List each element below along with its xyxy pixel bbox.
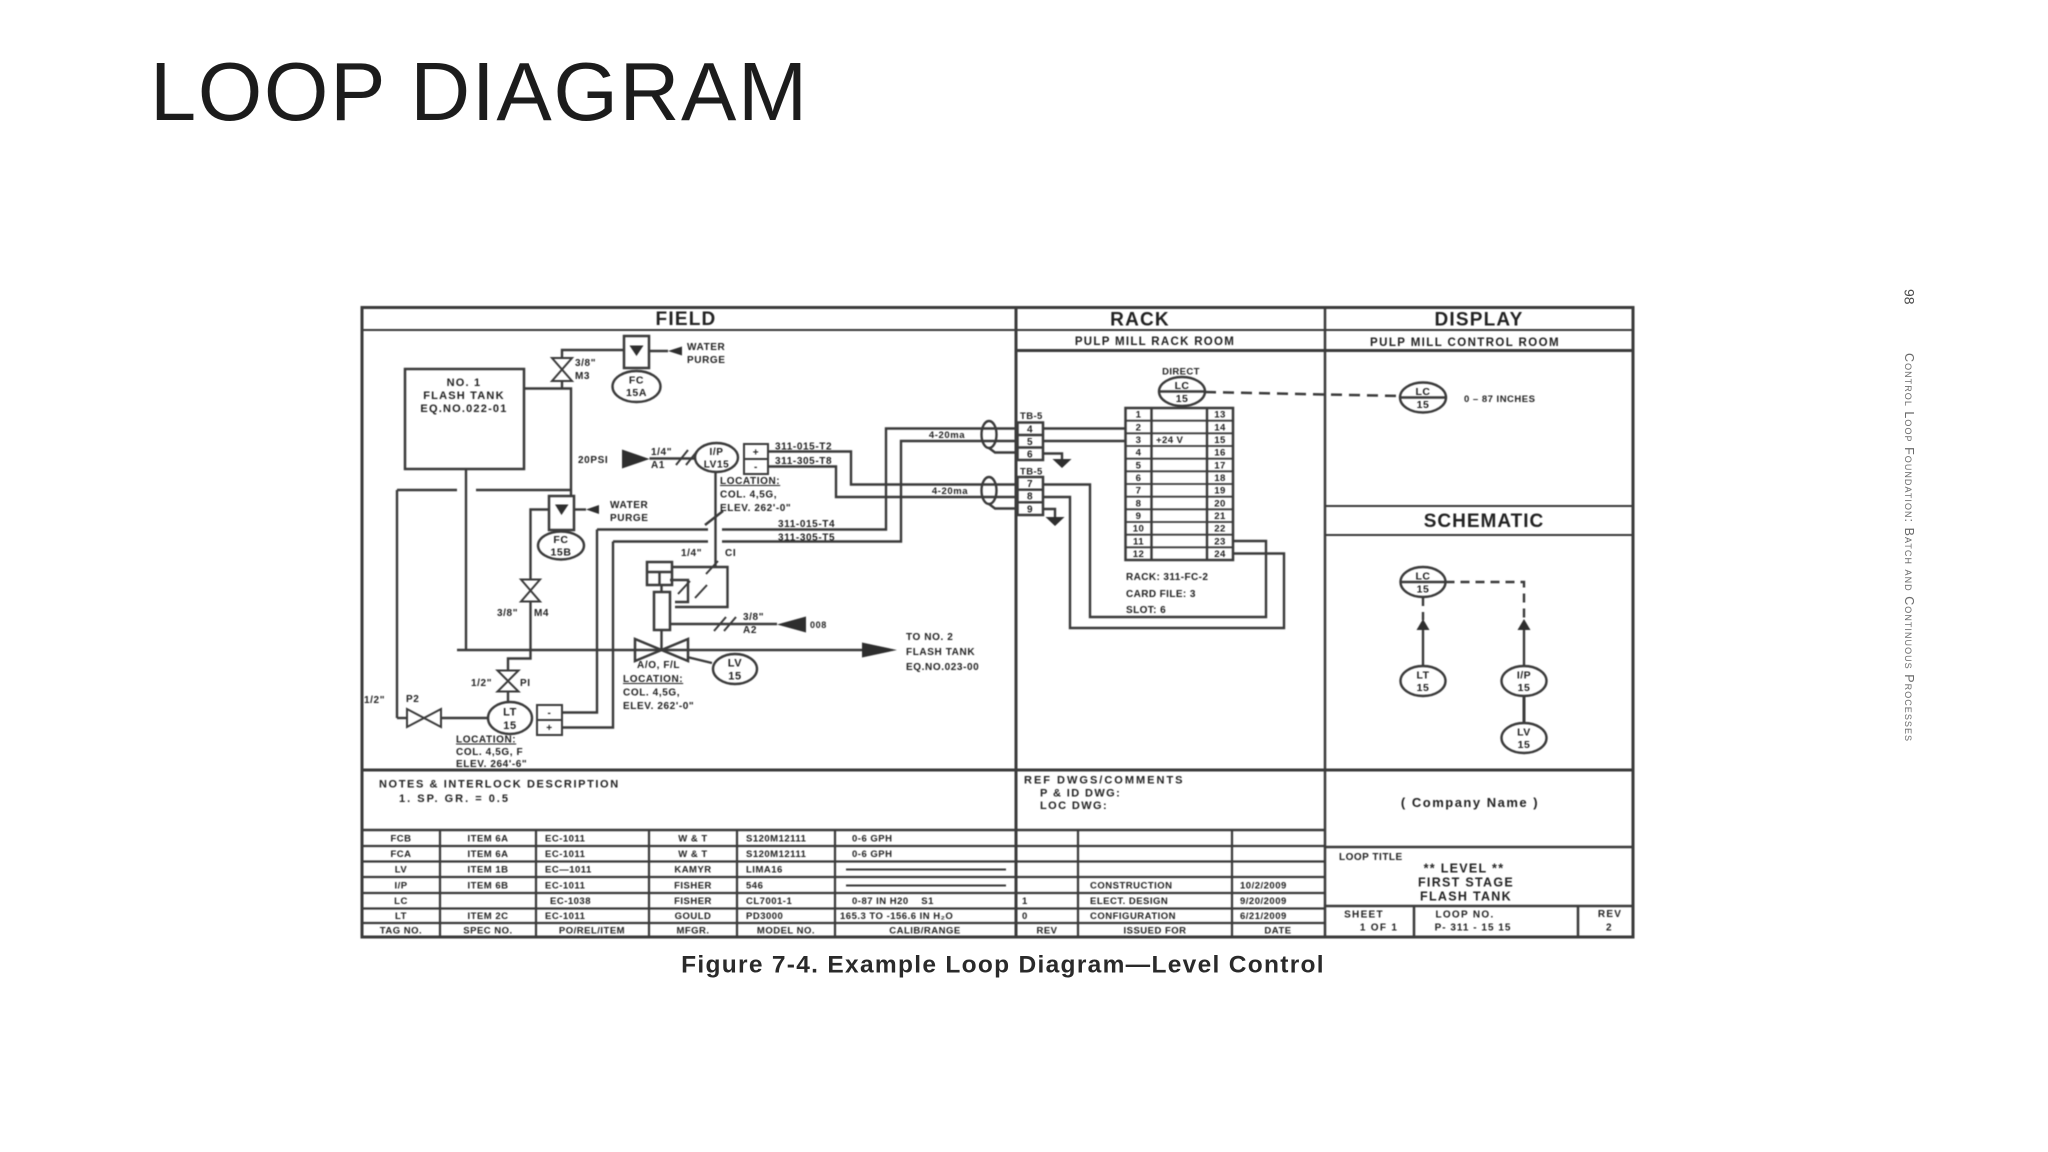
wire TB5 to card terminal 3 — [1043, 440, 1126, 442]
water purge line 15A — [649, 350, 668, 352]
svg-text:1/4": 1/4" — [651, 447, 672, 458]
svg-text:EC-1011: EC-1011 — [545, 911, 586, 922]
ground stub TB6 — [1043, 454, 1062, 460]
svg-text:3: 3 — [1136, 435, 1142, 446]
svg-text:PURGE: PURGE — [610, 513, 649, 524]
sheet row top line — [1325, 905, 1633, 908]
svg-text:4: 4 — [1136, 448, 1142, 459]
svg-text:CONFIGURATION: CONFIGURATION — [1090, 911, 1176, 922]
svg-text:13: 13 — [1214, 410, 1225, 421]
svg-text:12: 12 — [1133, 549, 1144, 560]
positioner box divider h — [647, 571, 672, 573]
svg-text:1: 1 — [1022, 896, 1028, 907]
svg-text:COL. 4,5G,: COL. 4,5G, — [623, 688, 680, 699]
svg-text:3/8": 3/8" — [497, 608, 518, 619]
svg-text:+: + — [753, 448, 759, 459]
svg-text:15: 15 — [1417, 399, 1430, 411]
svg-text:LT: LT — [1416, 670, 1429, 682]
LT junction box minus — [537, 705, 562, 720]
pipe below M4 to main pipe — [529, 602, 531, 651]
wire LT minus run to TB4 — [597, 528, 708, 530]
bubble I/P LV15 — [695, 443, 738, 472]
svg-text:FLASH TANK: FLASH TANK — [423, 390, 504, 402]
svg-text:I/P: I/P — [394, 881, 407, 892]
wire I/P minus to TB8 — [768, 467, 1017, 498]
tank bottom drain line — [465, 469, 467, 650]
svg-text:5: 5 — [1027, 437, 1033, 448]
bubble LT 15 — [488, 702, 532, 734]
svg-text:3/8": 3/8" — [575, 358, 596, 369]
link I/P to LV — [1523, 696, 1526, 723]
svg-text:PULP MILL RACK ROOM: PULP MILL RACK ROOM — [1075, 336, 1235, 348]
svg-text:ELEV. 264'-6": ELEV. 264'-6" — [456, 759, 527, 770]
sheet/loopno divider — [1413, 906, 1416, 937]
ground arrow TB9 — [1046, 517, 1065, 526]
vent arrow A2 — [777, 617, 806, 633]
svg-text:4: 4 — [1027, 425, 1033, 436]
svg-text:2: 2 — [1606, 923, 1612, 934]
left standpipe vertical — [396, 490, 398, 718]
schematic LC bubble — [1401, 567, 1446, 597]
svg-text:10: 10 — [1133, 524, 1144, 535]
line P2 to LT — [441, 717, 488, 719]
svg-text:SCHEMATIC: SCHEMATIC — [1424, 511, 1545, 532]
svg-text:TAG NO.: TAG NO. — [380, 926, 422, 937]
pneumatic slashes A2 — [714, 617, 736, 631]
svg-text:DIRECT: DIRECT — [1162, 367, 1200, 378]
shield drain pair1 — [989, 448, 1017, 453]
actuator stem lower — [660, 630, 662, 650]
svg-text:FC: FC — [629, 375, 644, 387]
pneumatic slashes positioner — [678, 561, 718, 598]
svg-text:0-6 GPH: 0-6 GPH — [852, 834, 892, 845]
svg-text:EC-1011: EC-1011 — [545, 849, 586, 860]
svg-text:-: - — [548, 708, 552, 719]
svg-text:CARD FILE: 3: CARD FILE: 3 — [1126, 589, 1196, 600]
valve P2 — [407, 709, 441, 727]
valve M4 — [521, 580, 540, 602]
positioner box divider v — [658, 572, 660, 585]
svg-text:CONSTRUCTION: CONSTRUCTION — [1090, 881, 1173, 892]
rack/display column divider — [1324, 308, 1327, 938]
svg-text:Control Loop Foundation: Batch: Control Loop Foundation: Batch and Conti… — [1902, 353, 1916, 742]
svg-text:NOTES & INTERLOCK DESCRIPTION: NOTES & INTERLOCK DESCRIPTION — [379, 779, 620, 791]
svg-text:22: 22 — [1214, 524, 1225, 535]
svg-text:LV15: LV15 — [704, 460, 730, 471]
svg-text:LOOP NO.: LOOP NO. — [1435, 910, 1494, 921]
I/P junction box minus — [744, 459, 768, 474]
svg-text:LV: LV — [728, 658, 743, 670]
svg-text:3/8": 3/8" — [743, 612, 764, 623]
svg-text:6: 6 — [1027, 450, 1033, 461]
svg-text:9: 9 — [1136, 511, 1142, 522]
I/P junction box plus — [744, 444, 768, 459]
valve M3 stub — [561, 381, 563, 389]
svg-text:LOCATION:: LOCATION: — [720, 476, 780, 487]
svg-text:15: 15 — [1176, 393, 1188, 405]
seal pot FC15B — [549, 496, 574, 530]
svg-text:LOCATION:: LOCATION: — [456, 735, 516, 746]
svg-text:ITEM 6A: ITEM 6A — [468, 849, 509, 860]
svg-text:FLASH TANK: FLASH TANK — [1420, 890, 1512, 904]
pneumatic slashes A1 — [676, 450, 698, 465]
page number 98 (rotated) — [1902, 289, 1918, 305]
display LC centerline — [1400, 396, 1446, 398]
actuator stem upper — [660, 585, 662, 592]
svg-text:** LEVEL **: ** LEVEL ** — [1424, 862, 1505, 876]
svg-text:21: 21 — [1214, 511, 1226, 522]
svg-text:REF DWGS/COMMENTS: REF DWGS/COMMENTS — [1024, 775, 1185, 787]
svg-text:0-6 GPH: 0-6 GPH — [852, 849, 892, 860]
svg-text:311-305-T5: 311-305-T5 — [778, 533, 835, 544]
svg-text:P & ID DWG:: P & ID DWG: — [1040, 788, 1121, 800]
svg-text:0 – 87 INCHES: 0 – 87 INCHES — [1464, 394, 1535, 405]
svg-text:Figure 7-4. Example Loop Diagr: Figure 7-4. Example Loop Diagram—Level C… — [681, 952, 1325, 979]
dashed LC to I/P branch — [1446, 582, 1525, 620]
svg-text:8: 8 — [1136, 498, 1142, 509]
field/rack column divider — [1015, 308, 1018, 938]
LT junction box plus — [537, 720, 562, 735]
svg-text:546: 546 — [746, 881, 763, 892]
svg-text:98: 98 — [1902, 289, 1918, 305]
svg-text:20PSI: 20PSI — [578, 455, 608, 466]
svg-text:S120M12111: S120M12111 — [746, 834, 807, 845]
svg-text:8: 8 — [1027, 492, 1033, 503]
svg-text:REV: REV — [1036, 926, 1057, 937]
seal pot FC15A — [624, 336, 649, 368]
svg-text:ELEV. 262'-0": ELEV. 262'-0" — [623, 701, 694, 712]
pipe outlet arrow — [862, 643, 897, 658]
seal pot 15B triangle — [555, 505, 569, 516]
svg-text:ITEM 6A: ITEM 6A — [468, 834, 509, 845]
schematic LV bubble — [1502, 723, 1547, 753]
svg-text:I/P: I/P — [709, 447, 723, 458]
svg-text:15: 15 — [1518, 682, 1531, 694]
schematic LC centerline — [1401, 581, 1446, 583]
ground stub TB9 — [1043, 509, 1055, 517]
header band bottom line — [362, 329, 1633, 331]
svg-text:A1: A1 — [651, 460, 665, 471]
svg-text:15: 15 — [1214, 435, 1226, 446]
svg-text:EQ.NO.022-01: EQ.NO.022-01 — [420, 403, 507, 415]
svg-text:CL7001-1: CL7001-1 — [746, 896, 792, 907]
svg-text:TB-5: TB-5 — [1020, 467, 1043, 478]
svg-text:LC: LC — [394, 896, 408, 907]
display/schematic divider — [1325, 505, 1633, 507]
svg-text:COL. 4,5G, F: COL. 4,5G, F — [456, 747, 523, 758]
svg-text:FISHER: FISHER — [674, 896, 712, 907]
svg-text:W & T: W & T — [678, 849, 707, 860]
svg-text:FIRST STAGE: FIRST STAGE — [1418, 876, 1514, 890]
water purge line 15B — [574, 508, 586, 510]
svg-text:311-015-T2: 311-015-T2 — [775, 442, 832, 453]
svg-text:( Company Name ): ( Company Name ) — [1401, 795, 1539, 810]
svg-text:P- 311 - 15 15: P- 311 - 15 15 — [1435, 923, 1512, 934]
tube to positioner top box — [672, 566, 716, 568]
valve M3 — [552, 358, 572, 381]
TB-5 block lower — [1018, 477, 1044, 515]
svg-text:A/O, F/L: A/O, F/L — [637, 660, 680, 671]
svg-text:PURGE: PURGE — [687, 355, 726, 366]
rack/display sub-band bottom line — [1016, 349, 1633, 352]
svg-text:RACK: RACK — [1110, 310, 1170, 331]
wire LT minus riser — [562, 530, 597, 713]
svg-text:ITEM 1B: ITEM 1B — [468, 865, 509, 876]
svg-text:1/2": 1/2" — [471, 678, 492, 689]
LV tag leader line — [687, 657, 712, 663]
svg-text:15: 15 — [728, 671, 741, 683]
svg-text:COL. 4,5G,: COL. 4,5G, — [720, 490, 777, 501]
ground arrow TB6 — [1053, 459, 1072, 468]
svg-text:23: 23 — [1214, 536, 1225, 547]
svg-text:LT: LT — [503, 707, 517, 719]
svg-text:EC-1011: EC-1011 — [545, 881, 586, 892]
svg-text:LIMA16: LIMA16 — [746, 865, 783, 876]
svg-text:FIELD: FIELD — [656, 309, 717, 330]
slide title — [150, 45, 809, 138]
svg-text:MODEL NO.: MODEL NO. — [757, 926, 815, 937]
main process pipe — [457, 649, 862, 651]
svg-text:18: 18 — [1214, 473, 1226, 484]
book title sidebar (rotated) — [1902, 353, 1916, 742]
svg-text:19: 19 — [1214, 486, 1225, 497]
wire TB7 to card terminal 23 — [1043, 485, 1266, 618]
svg-text:1/4": 1/4" — [681, 548, 702, 559]
svg-text:4-20ma: 4-20ma — [932, 486, 968, 497]
table row lines — [362, 846, 1325, 923]
arrowhead on I/P branch — [1518, 619, 1531, 630]
svg-text:9: 9 — [1027, 504, 1033, 515]
svg-text:PULP MILL CONTROL ROOM: PULP MILL CONTROL ROOM — [1370, 337, 1560, 349]
svg-text:4-20ma: 4-20ma — [929, 430, 965, 441]
svg-text:1. SP. GR. = 0.5: 1. SP. GR. = 0.5 — [399, 793, 510, 805]
svg-text:15: 15 — [1417, 682, 1430, 694]
svg-text:EC—1011: EC—1011 — [545, 865, 592, 876]
cable shield oval pair2 — [982, 477, 997, 504]
svg-text:15A: 15A — [626, 387, 647, 399]
svg-text:15: 15 — [1417, 584, 1430, 596]
svg-text:DATE: DATE — [1264, 926, 1291, 937]
svg-text:ELEV. 262'-0": ELEV. 262'-0" — [720, 503, 791, 514]
wire TB8 to card terminal 24 — [1043, 497, 1284, 628]
schematic LT bubble — [1401, 666, 1446, 696]
card row lines — [1126, 421, 1234, 548]
svg-text:NO. 1: NO. 1 — [447, 377, 482, 389]
rack LC bubble centerline — [1159, 390, 1205, 392]
svg-text:0: 0 — [1022, 911, 1028, 922]
wire LT minus run after hop — [722, 429, 1017, 530]
svg-text:+: + — [546, 723, 552, 734]
FIELD header — [656, 309, 1560, 532]
wire TB4 to card terminal 2 — [1043, 427, 1126, 429]
link to schematic LT — [1422, 630, 1424, 666]
svg-text:5: 5 — [1136, 460, 1142, 471]
svg-text:W & T: W & T — [678, 834, 707, 845]
svg-text:008: 008 — [810, 620, 827, 630]
svg-text:ELECT. DESIGN: ELECT. DESIGN — [1090, 896, 1168, 907]
LV row dash run — [846, 869, 1006, 871]
loop title box top line — [1325, 846, 1633, 849]
wire LT plus run to TB5 — [613, 540, 708, 542]
svg-text:24: 24 — [1214, 549, 1226, 560]
TB-5 block upper — [1018, 423, 1044, 461]
dashed link rack LC to display LC — [1205, 392, 1400, 396]
air supply line to I/P — [650, 457, 696, 459]
svg-text:DISPLAY: DISPLAY — [1434, 310, 1523, 331]
svg-text:15: 15 — [503, 720, 516, 732]
svg-text:SLOT: 6: SLOT: 6 — [1126, 605, 1166, 616]
svg-text:311-305-T8: 311-305-T8 — [775, 456, 832, 467]
horizontal header at 490 (right of drain) — [476, 489, 571, 491]
pipe above M3 to seal pot 15A — [562, 350, 624, 358]
instrument table top line — [362, 829, 1325, 832]
svg-text:-: - — [754, 462, 758, 473]
svg-text:FC: FC — [553, 534, 568, 546]
svg-text:EQ.NO.023-00: EQ.NO.023-00 — [906, 662, 979, 673]
shield drain pair2 — [989, 504, 1017, 509]
pipe pot15B left to valve M4 — [531, 510, 550, 580]
svg-text:PI: PI — [520, 678, 531, 689]
seal pot 15A triangle — [630, 346, 644, 357]
svg-text:FLASH TANK: FLASH TANK — [906, 647, 975, 658]
svg-text:M3: M3 — [575, 371, 590, 382]
horizontal header at 490 (left of drain) — [397, 489, 457, 491]
svg-text:P2: P2 — [406, 694, 419, 705]
svg-text:LV: LV — [1517, 727, 1531, 739]
positioner tube loop inner — [670, 580, 688, 602]
cable shield oval pair1 — [982, 421, 997, 448]
I/P row dash run — [846, 885, 1006, 887]
svg-text:PD3000: PD3000 — [746, 911, 783, 922]
svg-text:16: 16 — [1214, 448, 1225, 459]
svg-text:LOC DWG:: LOC DWG: — [1040, 800, 1108, 812]
svg-text:FCA: FCA — [390, 849, 411, 860]
svg-text:ITEM 6B: ITEM 6B — [468, 881, 509, 892]
svg-text:I/P: I/P — [1517, 670, 1531, 682]
svg-text:S120M12111: S120M12111 — [746, 849, 807, 860]
svg-text:LC: LC — [1175, 380, 1190, 392]
purge arrow 15B — [586, 505, 599, 514]
svg-text:GOULD: GOULD — [675, 911, 712, 922]
pneumatic slash on signal — [705, 511, 723, 525]
svg-text:CI: CI — [725, 548, 736, 559]
loopno/rev divider — [1577, 906, 1580, 937]
valve PI — [498, 671, 519, 692]
svg-text:2: 2 — [1136, 422, 1142, 433]
svg-text:0-87 IN H20 S1: 0-87 IN H20 S1 — [852, 896, 934, 907]
20PSI supply arrow — [622, 450, 650, 469]
display LC bubble — [1400, 383, 1446, 413]
wire LT plus run after hop — [722, 441, 1017, 542]
line left vertical to valve P2 — [397, 717, 407, 719]
bubble FC 15A — [613, 371, 661, 402]
notes/refs section top divider — [362, 769, 1633, 772]
svg-text:SPEC NO.: SPEC NO. — [463, 926, 512, 937]
I/P output signal line down — [714, 472, 716, 567]
schematic I/P bubble — [1502, 666, 1547, 696]
svg-text:6/21/2009: 6/21/2009 — [1240, 911, 1287, 922]
svg-text:14: 14 — [1214, 422, 1226, 433]
card file terminal strip — [1126, 408, 1234, 560]
wire LT plus riser — [562, 542, 613, 728]
svg-text:15B: 15B — [550, 547, 571, 559]
positioner box — [647, 562, 672, 585]
flash tank NO.1 — [405, 369, 524, 469]
svg-text:6: 6 — [1136, 473, 1142, 484]
svg-text:LOOP DIAGRAM: LOOP DIAGRAM — [150, 45, 809, 138]
svg-text:FISHER: FISHER — [674, 881, 712, 892]
svg-text:M4: M4 — [534, 608, 549, 619]
svg-text:TB-5: TB-5 — [1020, 411, 1043, 422]
svg-text:EC-1038: EC-1038 — [550, 896, 591, 907]
purge arrow 15A — [668, 347, 682, 356]
svg-text:10/2/2009: 10/2/2009 — [1240, 881, 1287, 892]
svg-text:LC: LC — [1416, 571, 1431, 583]
svg-text:REV: REV — [1598, 909, 1622, 920]
svg-text:A2: A2 — [743, 625, 757, 636]
svg-text:1: 1 — [1136, 410, 1142, 421]
svg-text:LT: LT — [395, 911, 407, 922]
svg-text:LC: LC — [1416, 386, 1431, 398]
svg-text:KAMYR: KAMYR — [674, 865, 711, 876]
svg-text:9/20/2009: 9/20/2009 — [1240, 896, 1287, 907]
svg-text:17: 17 — [1214, 460, 1225, 471]
svg-text:311-015-T4: 311-015-T4 — [778, 519, 835, 530]
arrowhead on LT branch — [1417, 619, 1430, 630]
svg-text:LOCATION:: LOCATION: — [623, 674, 683, 685]
impulse line PI to LT — [507, 692, 509, 703]
figure caption — [681, 952, 1325, 979]
svg-text:ITEM 2C: ITEM 2C — [468, 911, 509, 922]
svg-text:+24 V: +24 V — [1156, 435, 1184, 446]
svg-text:1 OF 1: 1 OF 1 — [1360, 923, 1398, 934]
svg-text:SHEET: SHEET — [1344, 910, 1384, 921]
svg-text:WATER: WATER — [687, 342, 726, 353]
bubble LV 15 — [713, 654, 757, 684]
outer border frame — [362, 308, 1633, 938]
svg-text:165.3 TO -156.6 IN H₂O: 165.3 TO -156.6 IN H₂O — [840, 911, 953, 922]
svg-text:ISSUED FOR: ISSUED FOR — [1123, 926, 1186, 937]
dashed LC to LT branch — [1422, 597, 1424, 620]
svg-text:WATER: WATER — [610, 500, 649, 511]
positioner tube loop outer — [675, 567, 728, 607]
table column lines — [440, 830, 1232, 937]
rack LC bubble — [1159, 377, 1205, 406]
svg-text:LOOP TITLE: LOOP TITLE — [1339, 852, 1403, 863]
svg-text:TO NO. 2: TO NO. 2 — [906, 632, 953, 643]
svg-text:11: 11 — [1133, 536, 1144, 547]
control valve LV — [635, 639, 688, 661]
wire I/P plus to TB7 — [768, 452, 1017, 485]
bubble FC 15B — [538, 532, 584, 560]
schematic band bottom line — [1325, 534, 1633, 536]
impulse tap U-jog — [508, 650, 531, 671]
vent line A2 — [670, 623, 777, 625]
svg-text:MFGR.: MFGR. — [676, 926, 709, 937]
svg-text:LV: LV — [395, 865, 408, 876]
svg-text:1/2": 1/2" — [364, 695, 385, 706]
svg-text:PO/REL/ITEM: PO/REL/ITEM — [559, 926, 625, 937]
svg-text:CALIB/RANGE: CALIB/RANGE — [889, 926, 960, 937]
svg-text:FCB: FCB — [390, 834, 411, 845]
svg-text:7: 7 — [1136, 486, 1142, 497]
svg-text:7: 7 — [1027, 479, 1033, 490]
svg-text:RACK: 311-FC-2: RACK: 311-FC-2 — [1126, 572, 1208, 583]
pipe tank right nozzle to down-leg — [524, 389, 571, 497]
svg-text:15: 15 — [1518, 739, 1531, 751]
link to schematic I/P — [1523, 630, 1525, 666]
svg-text:20: 20 — [1214, 498, 1225, 509]
